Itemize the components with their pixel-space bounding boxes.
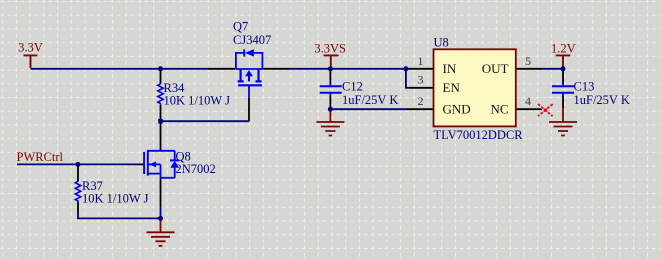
capacitor C12 (320, 83, 342, 96)
wire U8 pin5 to 1.2V node (542, 68, 563, 70)
svg-text:PWRCtrl: PWRCtrl (17, 150, 64, 164)
wire 3.3V rail right segment to U8 (290, 68, 406, 70)
svg-text:1uF/25V K: 1uF/25V K (574, 93, 630, 107)
svg-text:4: 4 (525, 94, 531, 108)
junction dot 3.3VS node (328, 66, 333, 71)
svg-text:C12: C12 (342, 80, 363, 94)
no-ERC marker on pin 4 (538, 104, 553, 116)
svg-text:1uF/25V K: 1uF/25V K (342, 93, 398, 107)
svg-text:5: 5 (525, 54, 531, 68)
svg-text:10K 1/10W J: 10K 1/10W J (82, 191, 149, 205)
svg-text:C13: C13 (574, 80, 595, 94)
resistor R37 (75, 181, 80, 202)
svg-text:2N7002: 2N7002 (176, 162, 216, 176)
junction dot 1.2V node (561, 66, 566, 71)
ground below C12 (316, 110, 344, 136)
junction dot 3.3V rail / R34 (158, 66, 163, 71)
svg-text:CJ3407: CJ3407 (233, 33, 271, 47)
pin C12 bottom (329, 96, 331, 108)
Q7 bulk arrow (245, 70, 253, 76)
junction dot ground node (158, 216, 163, 221)
pin C13 top (562, 69, 564, 84)
junction dot PWRCtrl / R37 (76, 162, 81, 167)
svg-text:GND: GND (443, 101, 471, 116)
svg-text:EN: EN (443, 80, 461, 95)
Q8 gate arrow (149, 162, 156, 168)
power port 3.3VS (324, 55, 339, 68)
pin Q7 source (208, 68, 236, 70)
transistor Q7 (PMOS CJ3407) (236, 49, 263, 98)
wire PWRCtrl to Q8 gate (17, 163, 138, 165)
svg-text:3.3VS: 3.3VS (314, 41, 346, 55)
pin U8-3 EN (409, 87, 434, 89)
svg-text:1.2V: 1.2V (551, 41, 576, 55)
svg-text:1: 1 (418, 54, 424, 68)
Q7 body diode arrow (245, 49, 254, 56)
capacitor C13 (552, 83, 574, 96)
svg-text:Q7: Q7 (233, 20, 248, 34)
junction dot U8 pin1 (403, 66, 408, 71)
pin C13 bottom (562, 96, 564, 108)
pin R34 top (160, 69, 162, 84)
pin R34 bottom (160, 105, 162, 121)
svg-text:NC: NC (490, 101, 508, 116)
pin C12 top (329, 69, 331, 84)
wire R34 bottom to Q7 gate (161, 120, 250, 122)
pin R37 top (77, 165, 79, 182)
IC U8 body (434, 49, 516, 126)
ground below C13 (549, 108, 577, 136)
power port 3.3V (24, 55, 38, 68)
pin Q8 drain (160, 121, 162, 151)
pin U8-4 NC (516, 108, 543, 110)
junction dot C12 / GND wire (328, 107, 333, 112)
svg-text:2: 2 (418, 94, 424, 108)
wire R37 bottom to ground node (78, 212, 161, 218)
pin U8-5 OUT (516, 68, 543, 70)
pin U8-1 IN (407, 68, 434, 70)
svg-text:OUT: OUT (482, 61, 509, 76)
pin Q7 drain (263, 68, 290, 70)
svg-text:3.3V: 3.3V (18, 40, 43, 54)
wire 3.3V rail left segment (31, 68, 208, 70)
svg-text:U8: U8 (434, 35, 449, 49)
pin Q8 gate (138, 163, 144, 165)
wire U8 pin1/pin3 tie (406, 69, 409, 88)
ground below Q8 (147, 219, 175, 246)
pin Q8 source (160, 178, 162, 207)
Q8 body diode arrow (170, 161, 179, 168)
svg-text:TLV70012DDCR: TLV70012DDCR (434, 128, 524, 142)
pin Q7 gate (248, 98, 250, 121)
resistor R34 (158, 84, 163, 105)
pin U8-2 GND (407, 108, 434, 110)
wire C12 node to U8 pin2 (330, 108, 407, 110)
transistor Q8 (NMOS 2N7002) (144, 150, 179, 178)
svg-text:3: 3 (418, 73, 424, 87)
svg-text:IN: IN (443, 61, 457, 76)
junction dot R34 bottom node (158, 119, 163, 124)
svg-text:10K 1/10W J: 10K 1/10W J (164, 94, 231, 108)
power port 1.2V (556, 55, 571, 68)
wire Q8 source to ground node (160, 207, 162, 218)
pin R37 bottom (77, 203, 79, 213)
